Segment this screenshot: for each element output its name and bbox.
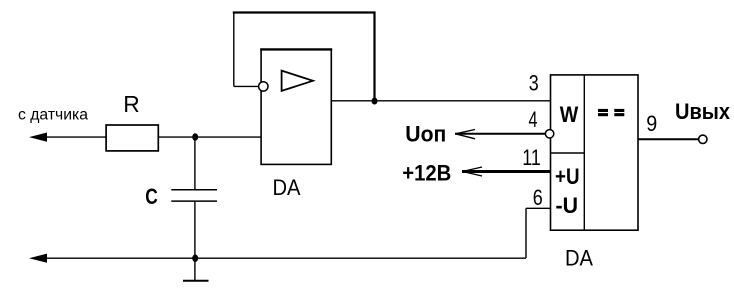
pin 4 circle — [545, 130, 553, 138]
op-amp triangle symbol — [282, 71, 313, 91]
svg-text:+12В: +12В — [402, 160, 451, 185]
svg-text:DA: DA — [565, 245, 593, 270]
arrow to sensor (left end of top rail) — [29, 133, 47, 142]
Uop arrowhead — [456, 130, 476, 139]
resistor R — [106, 125, 158, 151]
feedback wire into bubble — [234, 85, 259, 87]
node B junction dot (bottom rail) — [192, 255, 198, 262]
ground — [183, 280, 209, 282]
comparator internal divider vertical — [583, 75, 585, 230]
feedback wire right vertical — [373, 12, 375, 102]
op-amp DA top edge (bold) — [260, 48, 332, 50]
svg-text:-U: -U — [556, 193, 579, 218]
wire arrow to resistor — [43, 136, 106, 138]
output terminal circle — [699, 135, 707, 143]
svg-text:Uоп: Uоп — [405, 122, 446, 147]
svg-text:W: W — [560, 102, 579, 127]
svg-text:4: 4 — [529, 107, 538, 132]
comparator DA box — [551, 75, 639, 230]
arrow left (bottom rail) — [29, 254, 47, 263]
wire node A down to capacitor — [194, 137, 196, 190]
svg-text:+U: +U — [555, 164, 580, 189]
wire op-amp output to comparator pin 3 — [331, 100, 550, 102]
svg-text:DA: DA — [273, 175, 301, 200]
svg-text:Uвых: Uвых — [675, 99, 731, 124]
svg-text:11: 11 — [522, 145, 541, 170]
wire pin 9 output — [638, 138, 700, 140]
wire pin 6 vertical to bottom rail — [525, 208, 527, 258]
feedback wire top — [233, 11, 376, 13]
feedback wire left vertical — [233, 12, 235, 87]
comparator == symbol — [598, 109, 624, 116]
svg-text:C: C — [145, 184, 158, 209]
svg-text:9: 9 — [646, 111, 657, 136]
svg-text:с датчика: с датчика — [18, 107, 88, 124]
wire pin 6 horizontal — [526, 207, 551, 209]
capacitor C — [171, 190, 217, 201]
op-amp inverting input bubble — [259, 82, 268, 91]
wire pin 4 to Uop arrow — [455, 133, 545, 135]
wire resistor to node A — [158, 136, 195, 138]
wire capacitor to bottom rail — [194, 201, 196, 258]
wire node B to ground — [194, 258, 196, 281]
wire pin 11 (+12V supply) — [462, 170, 551, 173]
+12V arrowhead — [463, 167, 483, 176]
svg-text:6: 6 — [533, 185, 543, 210]
node A junction dot — [192, 133, 198, 140]
wire node A to op-amp input — [195, 136, 261, 138]
op-amp DA box — [261, 49, 331, 164]
comparator internal divider horizontal — [551, 152, 585, 154]
node C junction dot (op-amp output) — [372, 98, 378, 105]
svg-text:3: 3 — [529, 71, 539, 96]
svg-text:R: R — [123, 91, 140, 117]
bottom rail wire — [43, 257, 526, 259]
